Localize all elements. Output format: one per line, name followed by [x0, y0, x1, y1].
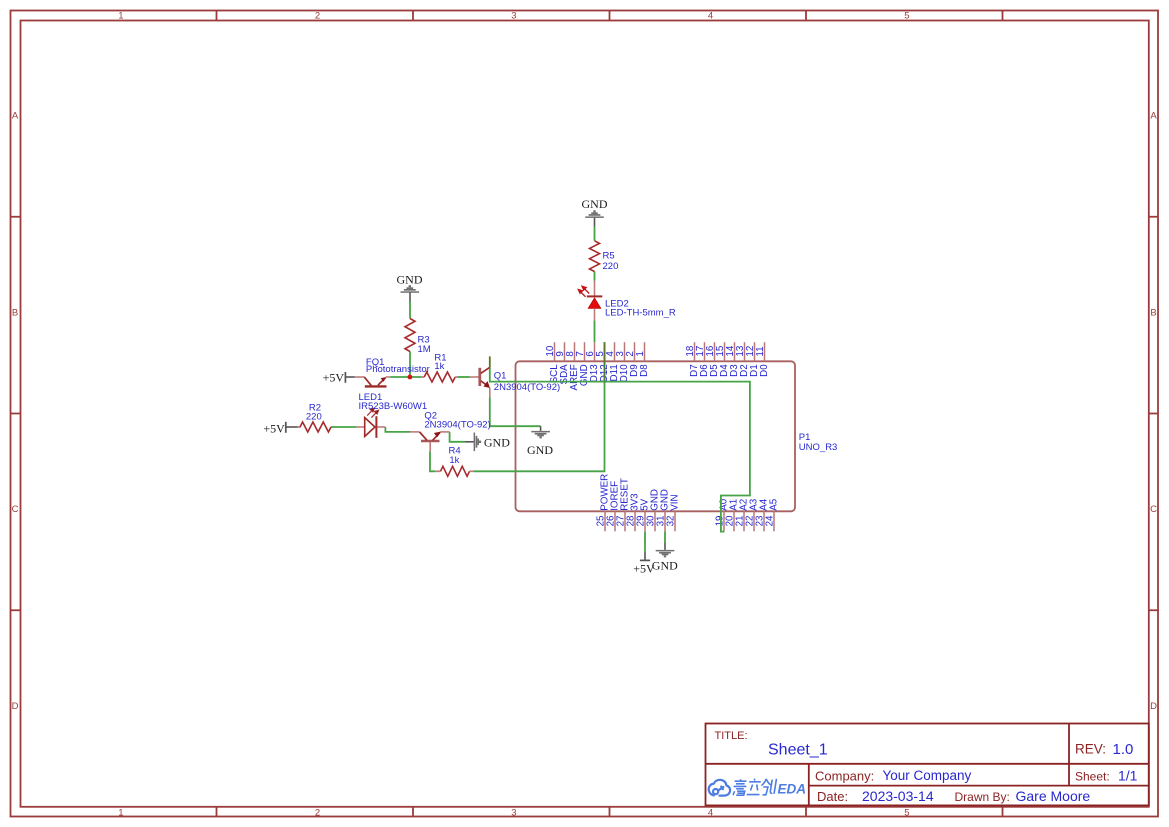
pin 27 RESET [624, 511, 626, 531]
svg-text:1M: 1M [418, 344, 431, 355]
svg-text:4: 4 [708, 11, 713, 22]
pin 18 D7 [694, 342, 696, 361]
wire: R3 bottom to junction [409, 352, 411, 378]
pin 2 D9 [634, 342, 636, 361]
wire overlap on pin 5 tick (olive) [604, 342, 606, 361]
svg-text:+5V: +5V [633, 561, 655, 575]
+5V flag below pin 29 [644, 552, 646, 560]
svg-text:2023-03-14: 2023-03-14 [862, 788, 934, 804]
ground flag below Q1 emitter [540, 426, 542, 431]
svg-text:1: 1 [118, 808, 123, 819]
phototransistor FQ1 [355, 376, 365, 378]
svg-text:Sheet:: Sheet: [1075, 769, 1110, 783]
svg-text:IR523B-W60W1: IR523B-W60W1 [359, 401, 428, 412]
pin 26 IOREF [614, 511, 616, 531]
wire: Q1 collector to A0 net [490, 367, 750, 531]
ground flag right of Q2 emitter [465, 441, 474, 443]
title block [706, 724, 1149, 806]
pin 16 D5 [714, 342, 716, 361]
EDA logo (cloud + CJK strokes + EDA) [709, 780, 730, 796]
svg-text:A5: A5 [768, 498, 779, 511]
svg-text:Your Company: Your Company [883, 768, 972, 783]
wire: D12 to R4 (vertical x=604.5) [474, 342, 605, 471]
svg-text:1k: 1k [449, 455, 459, 466]
wire: R2 to LED1 anode [331, 426, 356, 428]
svg-text:A: A [12, 111, 19, 122]
pin 1 D8 [644, 342, 646, 361]
svg-text:4: 4 [708, 808, 713, 819]
svg-text:A: A [1150, 111, 1157, 122]
svg-text:C: C [12, 504, 19, 515]
svg-text:LED-TH-5mm_R: LED-TH-5mm_R [605, 308, 676, 319]
svg-text:11: 11 [755, 346, 766, 356]
svg-text:2N3904(TO-92): 2N3904(TO-92) [494, 382, 560, 393]
svg-text:GND: GND [652, 558, 678, 572]
svg-text:2N3904(TO-92): 2N3904(TO-92) [424, 420, 490, 431]
svg-text:Sheet_1: Sheet_1 [768, 742, 828, 759]
pin 23 A4 [763, 511, 765, 531]
svg-text:2: 2 [315, 808, 320, 819]
svg-text:3: 3 [511, 808, 516, 819]
svg-text:1: 1 [635, 351, 646, 356]
svg-text:UNO_R3: UNO_R3 [799, 442, 838, 453]
pin 28 3V3 [634, 511, 636, 531]
pin 25 POWER [604, 511, 606, 531]
svg-text:1.0: 1.0 [1113, 741, 1134, 758]
svg-text:Date:: Date: [817, 789, 848, 804]
pin 11 D0 [764, 342, 766, 361]
pin 13 D2 [744, 342, 746, 361]
svg-text:2: 2 [315, 11, 320, 22]
pin 30 GND [654, 511, 656, 531]
wire: GND pin 31 flag [664, 531, 666, 542]
svg-text:B: B [12, 307, 18, 318]
pin 6 D13 [594, 342, 596, 361]
pin 7 GND [584, 342, 586, 361]
resistor R5 220 [590, 241, 600, 272]
LED LED2 LED-TH-5mm_R [594, 281, 596, 296]
pin 4 D11 [614, 342, 616, 361]
node junction at FQ1/R3/R1 [408, 375, 413, 380]
transistor Q2 2N3904 [410, 431, 420, 433]
pin 15 D4 [724, 342, 726, 361]
pin 14 D3 [734, 342, 736, 361]
pin 17 D6 [704, 342, 706, 361]
wire: R1 to Q1 base [458, 376, 470, 378]
svg-text:D0: D0 [759, 364, 770, 377]
pin 22 A3 [753, 511, 755, 531]
svg-text:GND: GND [582, 197, 608, 211]
svg-text:Phototransistor: Phototransistor [366, 364, 430, 375]
wire: FQ1 emitter to R1 (through node) [390, 376, 422, 378]
resistor R4 1k [435, 470, 440, 472]
pin 3 D10 [624, 342, 626, 361]
pin 10 SCL [554, 342, 556, 361]
svg-text:D: D [1150, 701, 1157, 712]
svg-text:3: 3 [511, 11, 516, 22]
op-amp? no: IC P1 UNO_R3 body [516, 361, 796, 511]
svg-text:Q1: Q1 [494, 371, 507, 382]
svg-text:GND: GND [484, 435, 510, 449]
wire: Q2 base to R4 [430, 451, 435, 471]
svg-text:1k: 1k [434, 361, 444, 372]
pin 31 GND [664, 511, 666, 531]
svg-text:D8: D8 [639, 364, 650, 377]
svg-text:+5V: +5V [323, 371, 345, 385]
pin 8 AREF [574, 342, 576, 361]
svg-text:1: 1 [118, 11, 123, 22]
svg-text:TITLE:: TITLE: [715, 730, 748, 742]
wire: LED1 cathode to Q2 collector [385, 427, 410, 432]
resistor R2 220 [298, 426, 301, 428]
svg-text:D: D [12, 701, 19, 712]
svg-text:Gare Moore: Gare Moore [1016, 788, 1091, 804]
pin 9 SDA [564, 342, 566, 361]
svg-text:C: C [1150, 504, 1157, 515]
svg-text:Drawn By:: Drawn By: [955, 790, 1010, 804]
svg-text:1/1: 1/1 [1118, 767, 1138, 783]
pin 20 A1 [733, 511, 735, 531]
pin 5 D12 [604, 342, 606, 361]
wire: LED2 cathode chain [594, 227, 596, 241]
resistor R1 1k [422, 376, 425, 378]
wire: Q2 emitter to GND [450, 432, 465, 442]
svg-text:5: 5 [904, 808, 909, 819]
svg-text:GND: GND [527, 443, 553, 457]
svg-text:GND: GND [397, 272, 423, 286]
ground flag below pin 31 [664, 543, 666, 550]
wire: 5V pin flag [644, 531, 646, 552]
pin 12 D1 [754, 342, 756, 361]
wire: Q1 emitter to GND [490, 397, 541, 426]
svg-text:Company:: Company: [815, 768, 874, 783]
svg-text:5: 5 [904, 11, 909, 22]
LED LED1 IR523B-W60W1 [356, 426, 364, 428]
pin 29 5V [644, 511, 646, 531]
svg-text:EDA: EDA [778, 782, 807, 797]
svg-text:32: 32 [665, 516, 676, 527]
transistor Q1 2N3904 [470, 376, 479, 378]
svg-text:220: 220 [603, 261, 619, 272]
svg-text:B: B [1150, 307, 1156, 318]
svg-text:24: 24 [764, 515, 775, 526]
svg-text:VIN: VIN [669, 494, 680, 510]
svg-text:220: 220 [306, 412, 322, 423]
pin 19 A0 [723, 511, 725, 531]
resistor R3 1M [405, 319, 415, 352]
svg-text:+5V: +5V [263, 421, 285, 435]
pin 32 VIN [674, 511, 676, 531]
svg-text:REV:: REV: [1075, 742, 1106, 757]
pin 21 A2 [743, 511, 745, 531]
pin 24 A5 [773, 511, 775, 531]
svg-text:R5: R5 [603, 251, 615, 262]
wire: R3 top to GND [409, 302, 411, 319]
